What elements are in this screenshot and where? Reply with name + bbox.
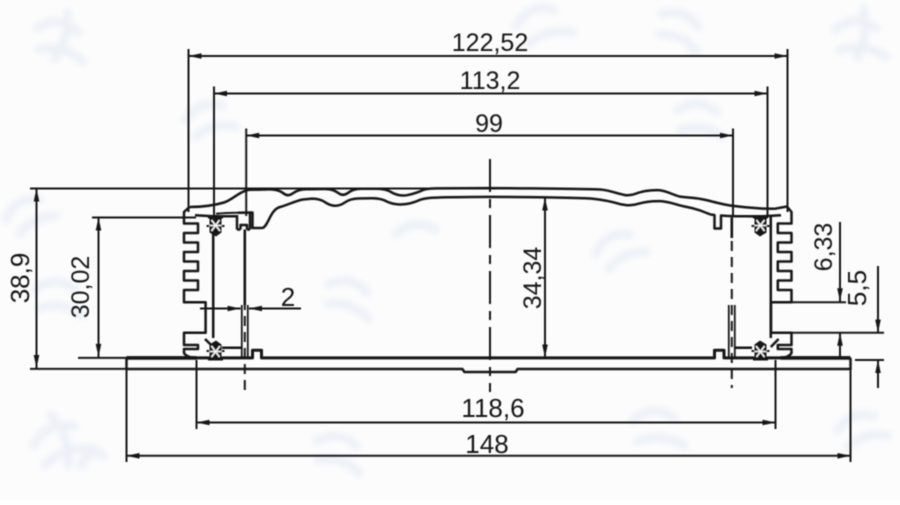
svg-text:113,2: 113,2 — [460, 67, 521, 95]
svg-text:38,9: 38,9 — [5, 253, 35, 304]
svg-text:5,5: 5,5 — [842, 270, 872, 306]
svg-text:122,52: 122,52 — [452, 29, 528, 57]
svg-text:118,6: 118,6 — [461, 393, 524, 423]
svg-text:34,34: 34,34 — [519, 247, 547, 310]
svg-text:30,02: 30,02 — [67, 256, 95, 319]
svg-text:2: 2 — [281, 282, 295, 312]
svg-text:6,33: 6,33 — [810, 223, 838, 272]
svg-text:148: 148 — [465, 429, 508, 459]
svg-text:99: 99 — [475, 110, 503, 138]
